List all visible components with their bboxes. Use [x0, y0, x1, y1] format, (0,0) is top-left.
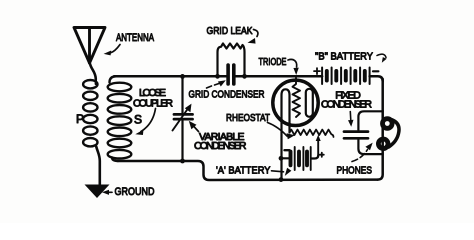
arrow to ground: [108, 191, 112, 193]
triode plate: [306, 89, 313, 117]
triode filament (legs exit below): [282, 89, 290, 179]
variable condenser arrow: [173, 109, 189, 131]
curl arrow to B battery: [377, 54, 386, 57]
svg-text:ANTENNA: ANTENNA: [116, 32, 154, 44]
arrow to triode: [288, 59, 297, 67]
arrow to variable condenser: [193, 126, 199, 132]
node: var-cond bottom junction: [180, 159, 185, 164]
variable condenser: [174, 114, 193, 119]
node: grid leak left: [215, 74, 220, 79]
dashed arrow to grid condenser: [207, 84, 220, 89]
triode V1: envelope: [273, 80, 318, 125]
coil P primary: [83, 79, 97, 146]
node: bottom wire junction: [279, 177, 284, 182]
svg-text:CONDENSER: CONDENSER: [321, 99, 372, 111]
ground: [85, 185, 110, 199]
wire: secondary bottom to A-battery node (stepped): [118, 161, 378, 180]
rheostat wiper arrow: [317, 140, 319, 157]
wire: condenser to bottom rail: [358, 140, 382, 154]
svg-text:TRIODE: TRIODE: [259, 56, 287, 68]
wire: plate to B battery (top right): [318, 75, 322, 78]
A battery minus sign: [285, 149, 290, 151]
coil S secondary: [108, 76, 132, 161]
svg-text:GRID CONDENSER: GRID CONDENSER: [189, 89, 265, 101]
node: A battery tap: [279, 156, 284, 161]
grid condenser: [228, 65, 234, 84]
node: junction var-cond top: [180, 74, 185, 79]
antenna: [74, 28, 105, 64]
svg-text:'A' BATTERY: 'A' BATTERY: [216, 165, 271, 177]
wire: main top wire (grid circuit): [114, 75, 322, 78]
svg-text:GRID LEAK: GRID LEAK: [207, 25, 253, 37]
wire: top rail to condenser/phones: [358, 111, 382, 130]
grid leak R: [218, 44, 245, 77]
svg-text:RHEOSTAT: RHEOSTAT: [226, 112, 270, 124]
svg-text:COUPLER: COUPLER: [133, 98, 173, 110]
B battery minus sign: [373, 70, 378, 72]
dashed arrow to phones: [352, 150, 368, 162]
arrow to antenna: [111, 45, 121, 53]
wire: B battery to right line: [370, 76, 383, 81]
variable condenser branch wire: [181, 76, 183, 161]
svg-text:CONDENSER: CONDENSER: [194, 140, 247, 152]
svg-text:S: S: [134, 113, 142, 127]
A battery: [281, 147, 318, 170]
svg-text:PHONES: PHONES: [337, 165, 373, 177]
A battery plus sign: [320, 153, 324, 157]
curl arrow to grid leak: [254, 30, 258, 37]
svg-text:GROUND: GROUND: [115, 186, 155, 198]
wire antenna lead: [90, 62, 96, 79]
wire: ground lead: [96, 147, 100, 186]
phones: [378, 119, 399, 149]
svg-text:"B" BATTERY: "B" BATTERY: [315, 51, 373, 63]
wire: right vertical line: [378, 79, 383, 180]
arrow to fixed condenser: [349, 112, 352, 121]
triode grid zigzag: [293, 78, 301, 117]
arrow to A battery: [272, 171, 284, 172]
arrow to rheostat: [268, 123, 288, 137]
B battery: [322, 68, 370, 85]
fixed condenser: [344, 132, 368, 139]
rheostat: [290, 130, 334, 137]
B battery plus sign: [314, 68, 320, 74]
arrow to S coil: [141, 109, 156, 132]
svg-text:P: P: [76, 112, 84, 126]
node: grid leak right: [242, 74, 247, 79]
